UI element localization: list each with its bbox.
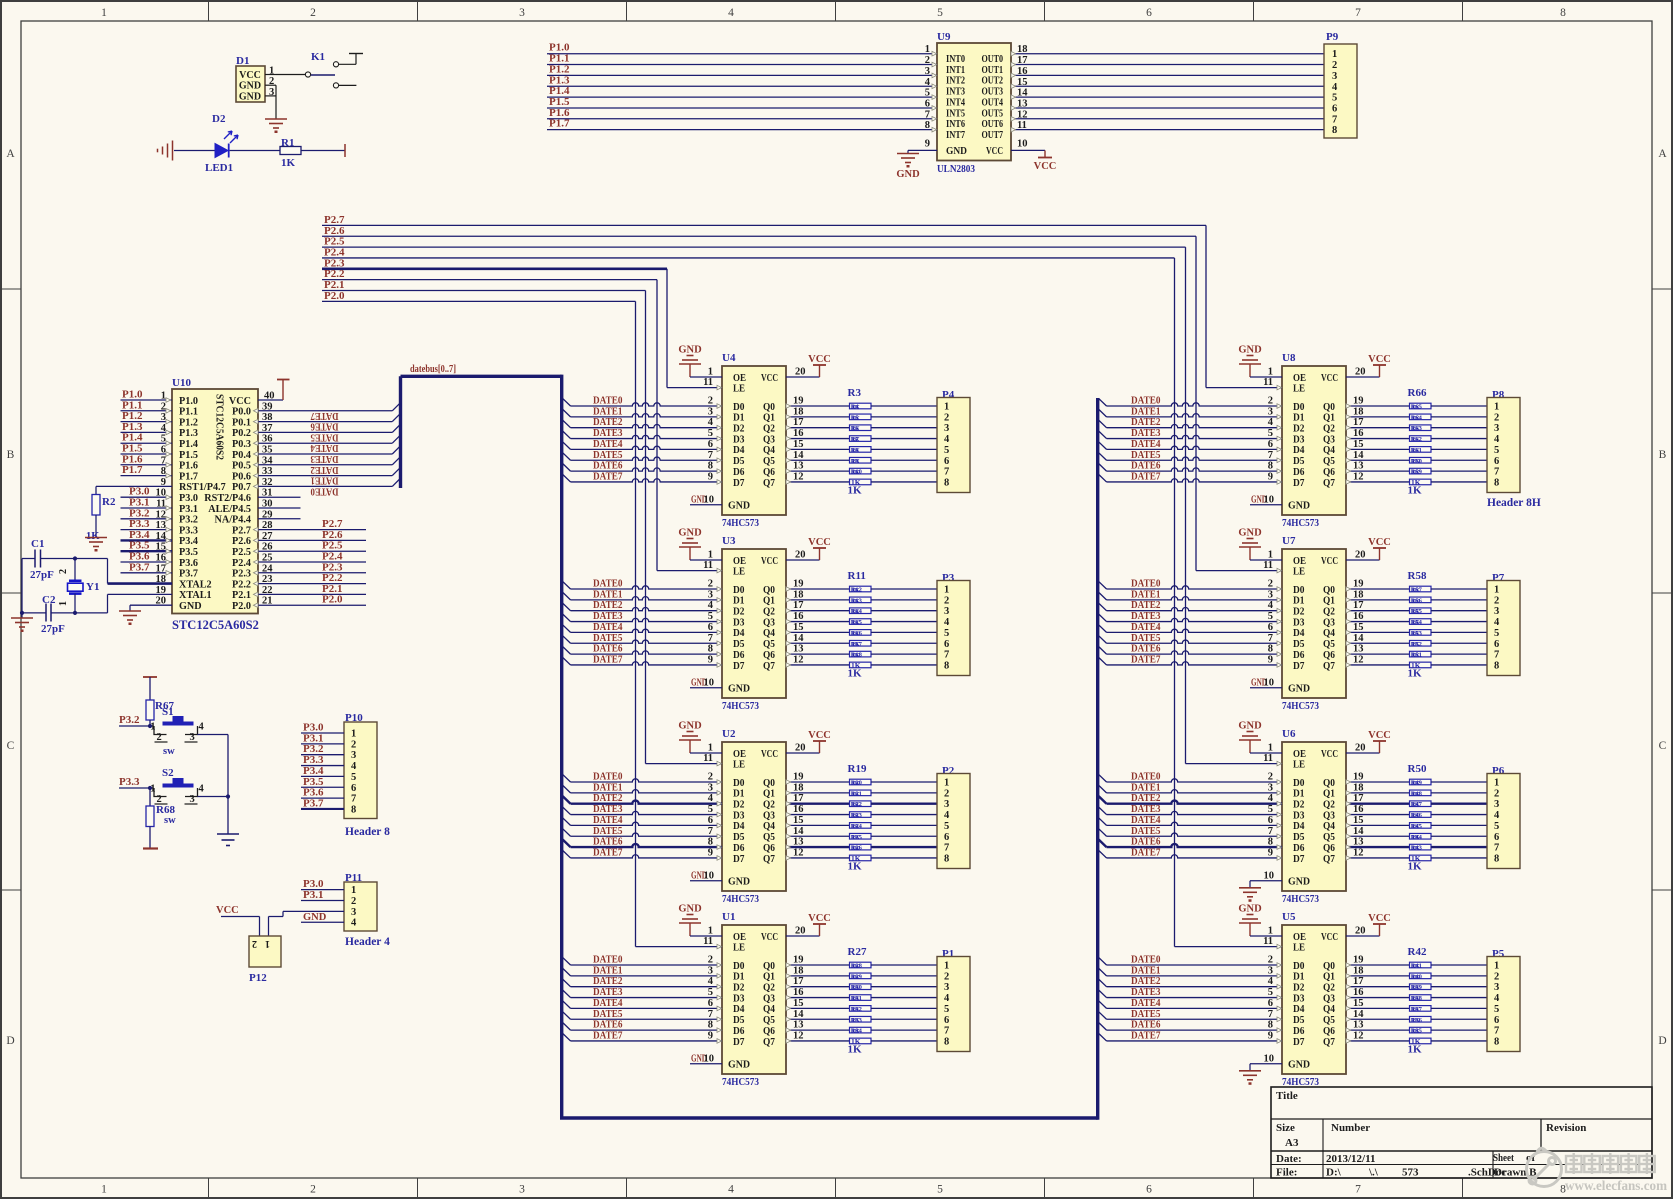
svg-text:P3.3: P3.3 bbox=[119, 776, 140, 788]
svg-text:32: 32 bbox=[262, 477, 273, 488]
svg-text:Number: Number bbox=[1331, 1122, 1370, 1134]
svg-text:74HC573: 74HC573 bbox=[1282, 700, 1320, 712]
svg-text:8: 8 bbox=[1494, 660, 1499, 671]
svg-text:A: A bbox=[1658, 148, 1667, 160]
svg-text:U10: U10 bbox=[172, 377, 191, 389]
svg-text:Q3: Q3 bbox=[1323, 993, 1335, 1004]
svg-text:1: 1 bbox=[1268, 743, 1273, 754]
svg-text:GND: GND bbox=[728, 1060, 750, 1071]
svg-text:VCC: VCC bbox=[239, 70, 261, 81]
svg-text:8: 8 bbox=[1332, 125, 1337, 136]
svg-text:1K: 1K bbox=[852, 995, 860, 1002]
svg-text:2: 2 bbox=[1494, 971, 1499, 982]
svg-text:7: 7 bbox=[944, 467, 949, 478]
svg-text:D0: D0 bbox=[733, 961, 745, 972]
svg-text:6: 6 bbox=[944, 639, 949, 650]
svg-text:D2: D2 bbox=[733, 424, 745, 435]
svg-text:GND: GND bbox=[1238, 721, 1262, 732]
svg-text:18: 18 bbox=[1353, 782, 1364, 793]
svg-text:D3: D3 bbox=[1293, 617, 1305, 628]
svg-text:2: 2 bbox=[252, 938, 257, 949]
svg-text:9: 9 bbox=[1268, 1030, 1273, 1041]
svg-text:7: 7 bbox=[1268, 633, 1273, 644]
svg-text:R27: R27 bbox=[848, 946, 867, 958]
svg-text:Title: Title bbox=[1276, 1090, 1298, 1102]
svg-text:D2: D2 bbox=[212, 113, 226, 125]
svg-text:D4: D4 bbox=[1293, 445, 1305, 456]
svg-text:VCC: VCC bbox=[1321, 556, 1338, 567]
svg-text:D0: D0 bbox=[733, 402, 745, 413]
svg-text:1K: 1K bbox=[852, 985, 860, 992]
svg-text:Q4: Q4 bbox=[763, 628, 775, 639]
svg-text:D1: D1 bbox=[733, 596, 745, 607]
svg-text:LED1: LED1 bbox=[205, 162, 233, 174]
svg-text:VCC: VCC bbox=[808, 537, 831, 548]
svg-text:1: 1 bbox=[101, 1184, 107, 1196]
svg-text:1: 1 bbox=[1268, 550, 1273, 561]
svg-text:7: 7 bbox=[1494, 467, 1499, 478]
svg-text:8: 8 bbox=[351, 804, 356, 815]
svg-text:1K: 1K bbox=[852, 1028, 860, 1035]
svg-text:1: 1 bbox=[1494, 778, 1499, 789]
svg-text:P1.7: P1.7 bbox=[179, 471, 198, 482]
svg-text:GND: GND bbox=[1288, 1060, 1310, 1071]
svg-text:D: D bbox=[1658, 1035, 1666, 1047]
svg-text:14: 14 bbox=[793, 1009, 804, 1020]
svg-text:4: 4 bbox=[944, 810, 950, 821]
svg-text:7: 7 bbox=[1494, 1026, 1499, 1037]
svg-text:Q6: Q6 bbox=[763, 843, 775, 854]
svg-text:74HC573: 74HC573 bbox=[722, 700, 760, 712]
svg-text:5: 5 bbox=[1494, 821, 1499, 832]
svg-text:U7: U7 bbox=[1282, 535, 1296, 547]
svg-text:P2.5: P2.5 bbox=[232, 547, 251, 558]
svg-text:1K: 1K bbox=[86, 531, 100, 542]
svg-text:Q6: Q6 bbox=[1323, 1026, 1335, 1037]
svg-text:R58: R58 bbox=[1408, 570, 1427, 582]
svg-text:P1.5: P1.5 bbox=[179, 450, 198, 461]
svg-text:20: 20 bbox=[795, 926, 806, 937]
svg-text:2: 2 bbox=[708, 579, 713, 590]
svg-text:Q6: Q6 bbox=[763, 650, 775, 661]
svg-text:1K: 1K bbox=[1412, 641, 1420, 648]
svg-text:D6: D6 bbox=[733, 650, 745, 661]
svg-text:Q0: Q0 bbox=[763, 402, 775, 413]
svg-text:1K: 1K bbox=[1412, 780, 1420, 787]
svg-text:INT1: INT1 bbox=[946, 65, 965, 76]
svg-text:1K: 1K bbox=[1412, 587, 1420, 594]
svg-text:4: 4 bbox=[944, 993, 950, 1004]
svg-text:17: 17 bbox=[1353, 793, 1364, 804]
svg-text:C1: C1 bbox=[31, 538, 44, 550]
svg-text:Q5: Q5 bbox=[1323, 456, 1335, 467]
svg-text:D7: D7 bbox=[733, 661, 745, 672]
svg-text:GND: GND bbox=[728, 877, 750, 888]
svg-text:10: 10 bbox=[704, 677, 715, 688]
svg-text:1K: 1K bbox=[852, 436, 860, 443]
svg-text:P0.0: P0.0 bbox=[232, 407, 251, 418]
svg-text:6: 6 bbox=[1332, 103, 1337, 114]
svg-text:2: 2 bbox=[708, 772, 713, 783]
svg-text:1K: 1K bbox=[1412, 426, 1420, 433]
svg-text:VCC: VCC bbox=[761, 932, 778, 943]
svg-text:OE: OE bbox=[733, 932, 746, 943]
svg-text:7: 7 bbox=[708, 633, 713, 644]
svg-text:1: 1 bbox=[351, 729, 356, 740]
svg-text:GND: GND bbox=[303, 912, 327, 923]
svg-text:Q5: Q5 bbox=[1323, 832, 1335, 843]
svg-text:6: 6 bbox=[1268, 622, 1273, 633]
svg-text:OUT1: OUT1 bbox=[982, 65, 1004, 76]
svg-text:22: 22 bbox=[262, 585, 273, 596]
svg-text:10: 10 bbox=[1264, 1053, 1275, 1064]
svg-text:6: 6 bbox=[1494, 456, 1499, 467]
svg-text:7: 7 bbox=[944, 843, 949, 854]
svg-text:12: 12 bbox=[793, 654, 804, 665]
svg-text:6: 6 bbox=[1268, 998, 1273, 1009]
svg-text:sw: sw bbox=[164, 815, 176, 826]
svg-text:8: 8 bbox=[708, 837, 713, 848]
svg-text:20: 20 bbox=[1355, 743, 1366, 754]
svg-text:D3: D3 bbox=[1293, 434, 1305, 445]
svg-text:7: 7 bbox=[1355, 7, 1361, 19]
svg-text:OE: OE bbox=[733, 556, 746, 567]
svg-text:10: 10 bbox=[1264, 870, 1275, 881]
svg-text:GND: GND bbox=[728, 684, 750, 695]
svg-text:Header 4: Header 4 bbox=[345, 936, 390, 948]
svg-text:GND: GND bbox=[678, 721, 702, 732]
svg-text:16: 16 bbox=[793, 987, 804, 998]
svg-text:20: 20 bbox=[1355, 367, 1366, 378]
svg-text:1K: 1K bbox=[852, 974, 860, 981]
svg-text:P2.0: P2.0 bbox=[232, 601, 251, 612]
svg-text:2: 2 bbox=[944, 788, 949, 799]
svg-text:1: 1 bbox=[1268, 367, 1273, 378]
svg-text:1K: 1K bbox=[1412, 845, 1420, 852]
svg-text:3: 3 bbox=[351, 907, 356, 918]
svg-text:Q4: Q4 bbox=[1323, 1004, 1335, 1015]
svg-text:9: 9 bbox=[1268, 471, 1273, 482]
svg-text:3: 3 bbox=[1268, 589, 1273, 600]
svg-text:INT4: INT4 bbox=[946, 97, 965, 108]
svg-text:8: 8 bbox=[1268, 461, 1273, 472]
svg-text:Q2: Q2 bbox=[763, 607, 775, 618]
svg-text:Q4: Q4 bbox=[1323, 445, 1335, 456]
svg-text:P0.1: P0.1 bbox=[232, 417, 251, 428]
svg-text:\.\: \.\ bbox=[1368, 1167, 1379, 1179]
svg-text:14: 14 bbox=[1353, 633, 1364, 644]
svg-text:1K: 1K bbox=[1408, 861, 1423, 873]
svg-text:1K: 1K bbox=[1412, 609, 1420, 616]
svg-text:P1.3: P1.3 bbox=[179, 428, 198, 439]
svg-text:29: 29 bbox=[262, 509, 273, 520]
svg-text:1: 1 bbox=[1494, 585, 1499, 596]
svg-text:1: 1 bbox=[150, 722, 155, 733]
svg-text:34: 34 bbox=[262, 455, 273, 466]
svg-text:Q3: Q3 bbox=[763, 993, 775, 1004]
svg-text:1K: 1K bbox=[852, 415, 860, 422]
svg-text:8: 8 bbox=[708, 644, 713, 655]
svg-text:8: 8 bbox=[944, 660, 949, 671]
svg-text:1K: 1K bbox=[852, 447, 860, 454]
svg-text:1K: 1K bbox=[848, 485, 863, 497]
svg-text:P1.4: P1.4 bbox=[179, 439, 198, 450]
svg-text:INT7: INT7 bbox=[946, 130, 965, 141]
svg-text:17: 17 bbox=[793, 793, 804, 804]
svg-text:1K: 1K bbox=[1412, 1006, 1420, 1013]
svg-text:8: 8 bbox=[708, 1020, 713, 1031]
svg-text:5: 5 bbox=[944, 821, 949, 832]
svg-text:D: D bbox=[6, 1035, 14, 1047]
svg-text:1K: 1K bbox=[1412, 404, 1420, 411]
svg-text:1K: 1K bbox=[1412, 812, 1420, 819]
svg-text:1K: 1K bbox=[1412, 447, 1420, 454]
svg-text:3: 3 bbox=[190, 732, 195, 743]
svg-text:13: 13 bbox=[793, 461, 804, 472]
svg-text:17: 17 bbox=[793, 600, 804, 611]
svg-text:Q5: Q5 bbox=[763, 456, 775, 467]
svg-text:GND: GND bbox=[678, 345, 702, 356]
svg-text:18: 18 bbox=[793, 782, 804, 793]
svg-text:11: 11 bbox=[1263, 560, 1273, 571]
svg-text:DATE7: DATE7 bbox=[1131, 1029, 1161, 1041]
svg-text:17: 17 bbox=[1353, 417, 1364, 428]
svg-text:2: 2 bbox=[1268, 955, 1273, 966]
svg-text:10: 10 bbox=[1017, 138, 1028, 149]
svg-text:16: 16 bbox=[793, 428, 804, 439]
svg-text:14: 14 bbox=[793, 450, 804, 461]
svg-text:OE: OE bbox=[1293, 749, 1306, 760]
svg-text:7: 7 bbox=[944, 1026, 949, 1037]
svg-text:D6: D6 bbox=[733, 843, 745, 854]
svg-text:Q1: Q1 bbox=[763, 413, 775, 424]
svg-text:D3: D3 bbox=[1293, 993, 1305, 1004]
svg-text:6: 6 bbox=[1268, 439, 1273, 450]
svg-text:GND: GND bbox=[1288, 684, 1310, 695]
svg-text:D3: D3 bbox=[733, 617, 745, 628]
svg-text:P3.0: P3.0 bbox=[179, 493, 198, 504]
svg-text:Q5: Q5 bbox=[1323, 639, 1335, 650]
svg-text:DATE6: DATE6 bbox=[310, 421, 338, 433]
svg-text:RST1/P4.7: RST1/P4.7 bbox=[179, 482, 226, 493]
svg-text:13: 13 bbox=[1353, 1020, 1364, 1031]
svg-text:7: 7 bbox=[1494, 843, 1499, 854]
svg-text:3: 3 bbox=[519, 1184, 525, 1196]
svg-text:Q5: Q5 bbox=[763, 639, 775, 650]
svg-text:7: 7 bbox=[708, 450, 713, 461]
svg-text:D7: D7 bbox=[1293, 1037, 1305, 1048]
svg-text:K1: K1 bbox=[311, 51, 325, 63]
svg-text:LE: LE bbox=[733, 759, 745, 770]
svg-text:4: 4 bbox=[1268, 976, 1274, 987]
svg-text:GND: GND bbox=[179, 601, 202, 612]
svg-text:2: 2 bbox=[1268, 579, 1273, 590]
svg-text:1K: 1K bbox=[852, 834, 860, 841]
svg-text:U8: U8 bbox=[1282, 352, 1296, 364]
svg-text:20: 20 bbox=[795, 743, 806, 754]
svg-text:30: 30 bbox=[262, 499, 273, 510]
svg-text:Y1: Y1 bbox=[86, 581, 99, 593]
svg-text:P2.6: P2.6 bbox=[232, 536, 251, 547]
svg-text:7: 7 bbox=[708, 1009, 713, 1020]
svg-text:15: 15 bbox=[1353, 815, 1364, 826]
svg-text:1: 1 bbox=[944, 402, 949, 413]
svg-text:8: 8 bbox=[1494, 1036, 1499, 1047]
svg-text:19: 19 bbox=[1353, 579, 1364, 590]
svg-text:2: 2 bbox=[708, 396, 713, 407]
svg-text:Q2: Q2 bbox=[1323, 607, 1335, 618]
svg-text:3: 3 bbox=[1494, 982, 1499, 993]
svg-text:B: B bbox=[1659, 449, 1667, 461]
svg-text:D7: D7 bbox=[733, 854, 745, 865]
svg-text:D3: D3 bbox=[1293, 810, 1305, 821]
svg-text:18: 18 bbox=[793, 965, 804, 976]
svg-text:15: 15 bbox=[1353, 622, 1364, 633]
svg-text:4: 4 bbox=[351, 918, 357, 929]
svg-text:3: 3 bbox=[944, 423, 949, 434]
svg-text:39: 39 bbox=[262, 401, 273, 412]
svg-text:20: 20 bbox=[1355, 926, 1366, 937]
svg-text:R66: R66 bbox=[1408, 387, 1427, 399]
svg-text:6: 6 bbox=[944, 1015, 949, 1026]
svg-text:1K: 1K bbox=[1412, 630, 1420, 637]
svg-text:2: 2 bbox=[157, 732, 162, 743]
svg-text:1K: 1K bbox=[852, 845, 860, 852]
svg-text:1K: 1K bbox=[852, 641, 860, 648]
svg-text:5: 5 bbox=[1332, 93, 1337, 104]
svg-text:1K: 1K bbox=[1412, 985, 1420, 992]
svg-text:STC12C5A60S2: STC12C5A60S2 bbox=[214, 394, 225, 460]
svg-text:D4: D4 bbox=[733, 821, 745, 832]
svg-text:VCC: VCC bbox=[808, 913, 831, 924]
svg-text:INT0: INT0 bbox=[946, 54, 965, 65]
svg-text:8: 8 bbox=[1494, 477, 1499, 488]
svg-text:D0: D0 bbox=[733, 778, 745, 789]
svg-text:2: 2 bbox=[708, 955, 713, 966]
svg-text:S2: S2 bbox=[162, 767, 174, 779]
svg-text:15: 15 bbox=[1353, 439, 1364, 450]
svg-text:GND: GND bbox=[239, 81, 261, 92]
svg-text:OE: OE bbox=[1293, 373, 1306, 384]
svg-text:P12: P12 bbox=[249, 972, 267, 984]
svg-text:1K: 1K bbox=[848, 861, 863, 873]
svg-text:5: 5 bbox=[1268, 611, 1273, 622]
svg-text:7: 7 bbox=[944, 650, 949, 661]
svg-text:27pF: 27pF bbox=[41, 623, 65, 635]
svg-text:1K: 1K bbox=[852, 458, 860, 465]
svg-text:S1: S1 bbox=[162, 706, 174, 718]
svg-text:Q1: Q1 bbox=[763, 972, 775, 983]
svg-text:P0.5: P0.5 bbox=[232, 461, 251, 472]
svg-text:D2: D2 bbox=[733, 607, 745, 618]
svg-text:6: 6 bbox=[708, 815, 713, 826]
svg-text:1K: 1K bbox=[852, 780, 860, 787]
svg-text:15: 15 bbox=[793, 998, 804, 1009]
svg-text:GND: GND bbox=[678, 904, 702, 915]
svg-text:1: 1 bbox=[944, 778, 949, 789]
svg-text:2: 2 bbox=[1494, 595, 1499, 606]
svg-text:2: 2 bbox=[1494, 788, 1499, 799]
svg-text:Q6: Q6 bbox=[1323, 650, 1335, 661]
svg-text:D6: D6 bbox=[1293, 1026, 1305, 1037]
svg-text:74HC573: 74HC573 bbox=[722, 893, 760, 905]
svg-text:3: 3 bbox=[1268, 406, 1273, 417]
svg-text:5: 5 bbox=[708, 987, 713, 998]
svg-text:DATE7: DATE7 bbox=[593, 470, 623, 482]
svg-text:D7: D7 bbox=[1293, 854, 1305, 865]
svg-text:P3.7: P3.7 bbox=[179, 569, 198, 580]
svg-text:1K: 1K bbox=[852, 791, 860, 798]
svg-text:D5: D5 bbox=[733, 1015, 745, 1026]
svg-text:XTAL2: XTAL2 bbox=[179, 579, 212, 590]
svg-text:4: 4 bbox=[728, 7, 734, 19]
svg-text:5: 5 bbox=[351, 772, 356, 783]
svg-text:11: 11 bbox=[703, 377, 713, 388]
svg-text:10: 10 bbox=[704, 494, 715, 505]
svg-text:5: 5 bbox=[1494, 628, 1499, 639]
svg-text:1: 1 bbox=[265, 938, 270, 949]
svg-text:LE: LE bbox=[733, 566, 745, 577]
svg-text:1K: 1K bbox=[852, 812, 860, 819]
svg-text:14: 14 bbox=[1353, 1009, 1364, 1020]
svg-text:6: 6 bbox=[944, 456, 949, 467]
svg-text:D3: D3 bbox=[733, 810, 745, 821]
svg-text:LE: LE bbox=[733, 383, 745, 394]
svg-text:4: 4 bbox=[351, 761, 357, 772]
svg-text:13: 13 bbox=[793, 837, 804, 848]
svg-text:DATE7: DATE7 bbox=[1131, 470, 1161, 482]
svg-text:1K: 1K bbox=[852, 404, 860, 411]
svg-text:4: 4 bbox=[944, 434, 950, 445]
svg-text:8: 8 bbox=[1268, 837, 1273, 848]
svg-text:Q3: Q3 bbox=[763, 617, 775, 628]
svg-text:P3.1: P3.1 bbox=[179, 504, 198, 515]
svg-text:D2: D2 bbox=[1293, 607, 1305, 618]
svg-text:1: 1 bbox=[944, 961, 949, 972]
svg-text:2: 2 bbox=[351, 896, 356, 907]
svg-text:D1: D1 bbox=[1293, 413, 1305, 424]
svg-text:6: 6 bbox=[1146, 1184, 1152, 1196]
svg-text:ALE/P4.5: ALE/P4.5 bbox=[208, 504, 251, 515]
svg-text:P2.0: P2.0 bbox=[324, 290, 345, 302]
svg-text:D6: D6 bbox=[733, 467, 745, 478]
svg-text:U1: U1 bbox=[722, 911, 735, 923]
svg-text:8: 8 bbox=[1268, 644, 1273, 655]
svg-text:3: 3 bbox=[519, 7, 525, 19]
svg-text:Date:: Date: bbox=[1276, 1153, 1302, 1165]
svg-text:D4: D4 bbox=[1293, 1004, 1305, 1015]
svg-text:4: 4 bbox=[1268, 600, 1274, 611]
svg-text:23: 23 bbox=[262, 574, 273, 585]
svg-text:datebus[0..7]: datebus[0..7] bbox=[410, 364, 456, 375]
svg-text:OUT5: OUT5 bbox=[982, 108, 1004, 119]
svg-text:2: 2 bbox=[1268, 772, 1273, 783]
svg-text:13: 13 bbox=[1353, 644, 1364, 655]
svg-text:3: 3 bbox=[708, 406, 713, 417]
svg-text:16: 16 bbox=[1353, 804, 1364, 815]
svg-text:7: 7 bbox=[1355, 1184, 1361, 1196]
svg-text:14: 14 bbox=[1353, 450, 1364, 461]
svg-text:2: 2 bbox=[310, 1184, 316, 1196]
svg-text:XTAL1: XTAL1 bbox=[179, 590, 212, 601]
svg-text:Q3: Q3 bbox=[1323, 617, 1335, 628]
svg-text:OE: OE bbox=[1293, 932, 1306, 943]
svg-text:Q7: Q7 bbox=[1323, 478, 1335, 489]
svg-text:P3.2: P3.2 bbox=[179, 515, 198, 526]
svg-text:74HC573: 74HC573 bbox=[1282, 517, 1320, 529]
svg-text:1K: 1K bbox=[1412, 974, 1420, 981]
svg-text:7: 7 bbox=[1268, 1009, 1273, 1020]
